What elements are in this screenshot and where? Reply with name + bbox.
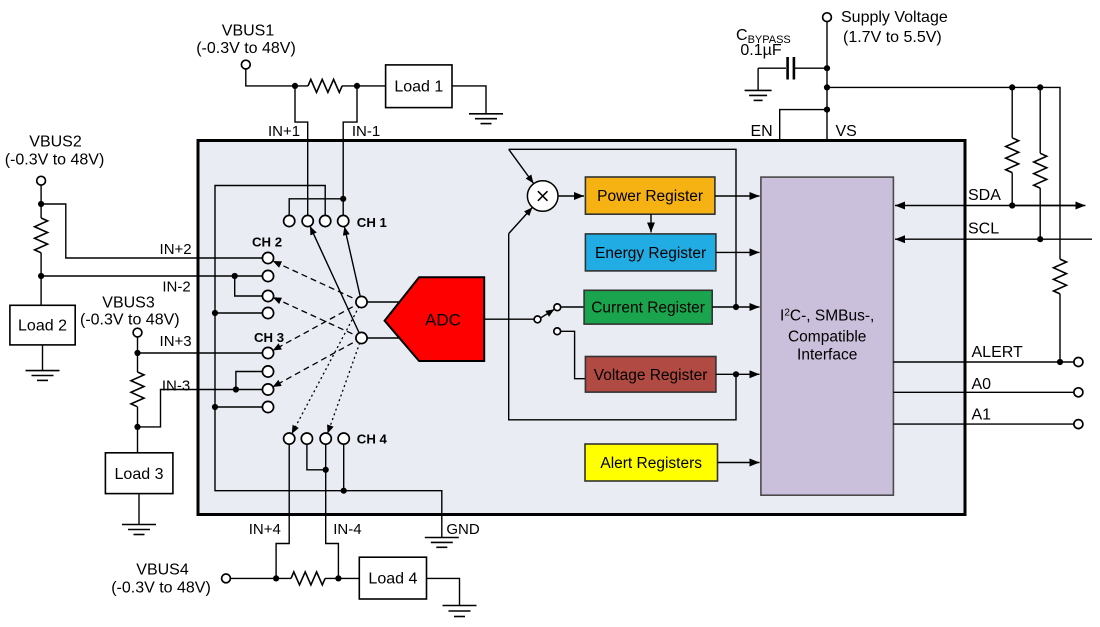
wire bus to CH3 c4 xyxy=(215,406,268,408)
junction IN-2 inner xyxy=(232,273,238,279)
junction cap tap xyxy=(824,65,830,71)
wire IN+4 xyxy=(276,439,289,579)
junction IN-1 tap xyxy=(354,83,360,89)
wire SDA xyxy=(895,205,1078,207)
CH3 pin circles xyxy=(262,347,273,412)
register Alert xyxy=(585,444,718,481)
svg-text:GND: GND xyxy=(446,521,480,538)
terminal ALERT xyxy=(1074,358,1083,367)
junction bus CH3 xyxy=(212,404,218,410)
resistor R1 shunt1 xyxy=(308,79,342,92)
junction IN-3 xyxy=(134,424,140,430)
wire Alert to interface xyxy=(718,462,760,464)
junction IN-4 tap xyxy=(335,575,341,581)
svg-text:A0: A0 xyxy=(972,376,992,393)
wire IN+1 xyxy=(295,86,308,221)
load Load 1 xyxy=(386,65,452,108)
junction SDA pullup xyxy=(1009,202,1015,208)
switch contact voltage xyxy=(554,328,561,335)
junction CH1 pair xyxy=(340,196,346,202)
wire Load 3 to ground xyxy=(138,494,140,525)
ground GND pin xyxy=(425,538,459,548)
svg-text:IN+1: IN+1 xyxy=(268,123,300,140)
junction VBUS2 xyxy=(38,201,44,207)
wire ALERT xyxy=(893,361,1074,363)
wire Current to interface xyxy=(712,306,759,308)
wire CH2 pair link xyxy=(235,276,268,296)
ground load3 xyxy=(122,525,156,535)
svg-text:(1.7V to 5.5V): (1.7V to 5.5V) xyxy=(843,29,942,46)
resistor R6 SCL pullup xyxy=(1039,87,1041,153)
junction IN-3 inner xyxy=(233,386,239,392)
svg-text:Compatible: Compatible xyxy=(788,329,866,346)
wire CH4 gnd stub xyxy=(343,439,345,491)
terminal VBUS4 xyxy=(222,574,231,583)
wire R3 to junction xyxy=(137,407,139,427)
svg-text:IN-1: IN-1 xyxy=(352,123,380,140)
terminal VBUS1 xyxy=(241,60,250,69)
mux switch line pole2 to CH2 c3 xyxy=(273,297,362,338)
wire GND bus xyxy=(215,186,442,538)
junction CH4 gnd xyxy=(341,488,347,494)
svg-text:CH 1: CH 1 xyxy=(357,215,387,230)
svg-text:0.1µF: 0.1µF xyxy=(740,42,781,59)
wire supply rail xyxy=(827,87,1060,259)
svg-text:CH 2: CH 2 xyxy=(252,235,282,250)
svg-text:EN: EN xyxy=(751,123,773,140)
wire CH1 pair link xyxy=(289,199,343,221)
wire Energy to interface xyxy=(716,251,760,253)
svg-text:VBUS2: VBUS2 xyxy=(29,134,82,151)
wire VBUS2 down xyxy=(40,185,42,218)
junction rail tap xyxy=(824,84,830,90)
wire CH4 pair link xyxy=(307,439,326,470)
wire VBUS3 to Load 3 xyxy=(137,427,139,453)
switch arm S1 xyxy=(541,309,555,318)
mux switch line pole2 to CH4 c3 xyxy=(328,338,362,434)
wire contact to Voltage Register xyxy=(560,331,585,378)
wire CH3 pair link xyxy=(236,372,268,390)
wire VBUS1 to shunt xyxy=(246,69,308,86)
wire voltage feedback to multiplier xyxy=(509,234,736,420)
wire multiplier to Power Register xyxy=(558,195,584,197)
chip body U1 xyxy=(198,141,965,515)
wire EN xyxy=(780,110,827,140)
junction current feedback xyxy=(733,304,739,310)
resistor R7 ALERT pullup xyxy=(1054,259,1067,294)
svg-text:Alert Registers: Alert Registers xyxy=(600,455,702,472)
register Voltage xyxy=(585,357,716,393)
wire Power to Energy xyxy=(650,214,652,232)
wire pole1 to ADC xyxy=(362,301,400,303)
register Current xyxy=(584,290,712,324)
wire pole2 to ADC xyxy=(362,337,400,339)
svg-text:VBUS4: VBUS4 xyxy=(136,562,189,579)
svg-text:VBUS3: VBUS3 xyxy=(102,295,155,312)
CH1 pin circles xyxy=(284,215,349,226)
svg-text:VBUS1: VBUS1 xyxy=(222,23,275,40)
svg-text:IN-3: IN-3 xyxy=(162,378,190,395)
svg-text:IN-4: IN-4 xyxy=(333,521,361,538)
junction IN+4 tap xyxy=(273,575,279,581)
wire bus to CH2 c4 xyxy=(215,312,268,314)
wire Load 1 to ground xyxy=(452,86,486,114)
CH4 pin circles xyxy=(284,433,350,444)
svg-text:IN-2: IN-2 xyxy=(162,279,190,296)
svg-text:SCL: SCL xyxy=(968,221,999,238)
svg-text:I2C-, SMBus-,: I2C-, SMBus-, xyxy=(780,308,874,325)
capacitor C1 CBYPASS xyxy=(795,67,827,69)
wire VS supply xyxy=(826,22,828,140)
switch common contact xyxy=(534,316,541,323)
svg-text:Current Register: Current Register xyxy=(591,300,705,317)
resistor R5 SDA pullup xyxy=(1011,87,1013,137)
svg-text:Power Register: Power Register xyxy=(597,188,703,205)
register Power xyxy=(585,177,715,214)
wire IN+2 xyxy=(41,204,268,258)
junction SCL pullup xyxy=(1037,236,1043,242)
junction IN-2 xyxy=(38,273,44,279)
svg-text:Voltage Register: Voltage Register xyxy=(594,367,708,384)
junction CH4 pair xyxy=(323,467,329,473)
svg-text:Energy Register: Energy Register xyxy=(595,245,706,262)
svg-text:Load 1: Load 1 xyxy=(394,79,443,96)
svg-text:IN+4: IN+4 xyxy=(249,521,281,538)
load Load 2 xyxy=(10,305,75,345)
mux switch line pole2 to CH3 c3 xyxy=(273,338,362,387)
svg-text:Load 2: Load 2 xyxy=(18,318,67,335)
junction ALERT pullup xyxy=(1057,359,1063,365)
ADC U2 xyxy=(385,277,485,361)
wire A1 xyxy=(893,423,1074,425)
register Energy xyxy=(585,234,716,271)
wire Voltage to interface xyxy=(716,373,760,375)
wire Load 2 to ground xyxy=(42,345,44,371)
wire contact to Current Register xyxy=(561,306,584,308)
terminal A1 xyxy=(1074,420,1083,429)
mux pole P1 xyxy=(356,296,367,307)
terminal VBUS2 xyxy=(37,176,46,185)
terminal A0 xyxy=(1074,388,1083,397)
wire A0 xyxy=(893,391,1074,393)
mux switch line pole2 to CH1 c2 xyxy=(310,226,362,338)
mux switch line pole1 to CH1 c4 xyxy=(344,227,361,302)
wire VBUS4 to shunt xyxy=(230,577,291,579)
svg-text:CH 4: CH 4 xyxy=(357,432,388,447)
mux switch line pole1 to CH3 c1 xyxy=(273,302,362,351)
svg-text:Load 4: Load 4 xyxy=(368,571,417,588)
mux switch line pole1 to CH2 c1 xyxy=(273,261,362,302)
mux pole P2 xyxy=(356,332,367,343)
svg-text:A1: A1 xyxy=(972,407,992,424)
junction rail SDA pullup xyxy=(1009,84,1015,90)
wire IN+3 xyxy=(138,337,269,353)
wire Load 4 to ground xyxy=(427,578,460,605)
wire IN-2 xyxy=(41,253,268,276)
switch contact current xyxy=(554,304,561,311)
svg-text:ADC: ADC xyxy=(425,311,461,330)
junction EN tap xyxy=(824,107,830,113)
wire IN-4 xyxy=(326,439,339,579)
resistor R4 shunt4 xyxy=(291,572,325,585)
mux switch line pole1 to CH4 c1 xyxy=(292,302,362,434)
ground CBYPASS xyxy=(745,90,772,100)
terminal VBUS3 xyxy=(133,328,142,337)
svg-text:Supply Voltage: Supply Voltage xyxy=(841,9,948,26)
ground load2 xyxy=(26,371,60,381)
junction bus CH2 xyxy=(212,310,218,316)
wire VBUS2 to Load 2 xyxy=(40,276,42,305)
load Load 3 xyxy=(105,453,172,494)
svg-text:IN+2: IN+2 xyxy=(160,241,192,258)
terminal Supply Voltage xyxy=(823,13,832,22)
wire Power to interface xyxy=(715,195,760,197)
wire shunt4 to Load 4 xyxy=(325,577,359,579)
wire current feedback to multiplier xyxy=(509,149,736,307)
load Load 4 xyxy=(359,557,426,599)
svg-text:VS: VS xyxy=(836,123,857,140)
wire IN-1 xyxy=(343,86,357,221)
ground load4 xyxy=(443,606,477,617)
CH2 pin circles xyxy=(262,252,273,318)
resistor R2 shunt2 xyxy=(35,218,48,253)
resistor R3 shunt3 xyxy=(137,353,139,372)
svg-text:(-0.3V to 48V): (-0.3V to 48V) xyxy=(196,40,296,57)
multiplier X1 xyxy=(527,181,558,212)
svg-text:CH 3: CH 3 xyxy=(254,330,284,345)
junction rail SCL pullup xyxy=(1037,84,1043,90)
svg-text:(-0.3V to 48V): (-0.3V to 48V) xyxy=(80,312,180,329)
svg-text:Interface: Interface xyxy=(797,347,857,364)
svg-text:(-0.3V to 48V): (-0.3V to 48V) xyxy=(111,580,211,597)
svg-text:IN+3: IN+3 xyxy=(160,333,192,350)
svg-text:ALERT: ALERT xyxy=(972,344,1024,361)
junction voltage feedback xyxy=(733,371,739,377)
ground load1 xyxy=(469,114,503,124)
wire IN-3 xyxy=(138,390,269,427)
svg-text:SDA: SDA xyxy=(968,187,1001,204)
svg-text:(-0.3V to 48V): (-0.3V to 48V) xyxy=(5,152,105,169)
junction IN+1 tap xyxy=(292,83,298,89)
wire ADC output xyxy=(484,318,533,320)
junction IN+3 xyxy=(134,350,140,356)
wire SCL xyxy=(895,238,1092,240)
svg-text:Load 3: Load 3 xyxy=(115,466,164,483)
interface block U3 xyxy=(761,177,894,495)
wire shunt1 to Load 1 xyxy=(342,85,386,87)
